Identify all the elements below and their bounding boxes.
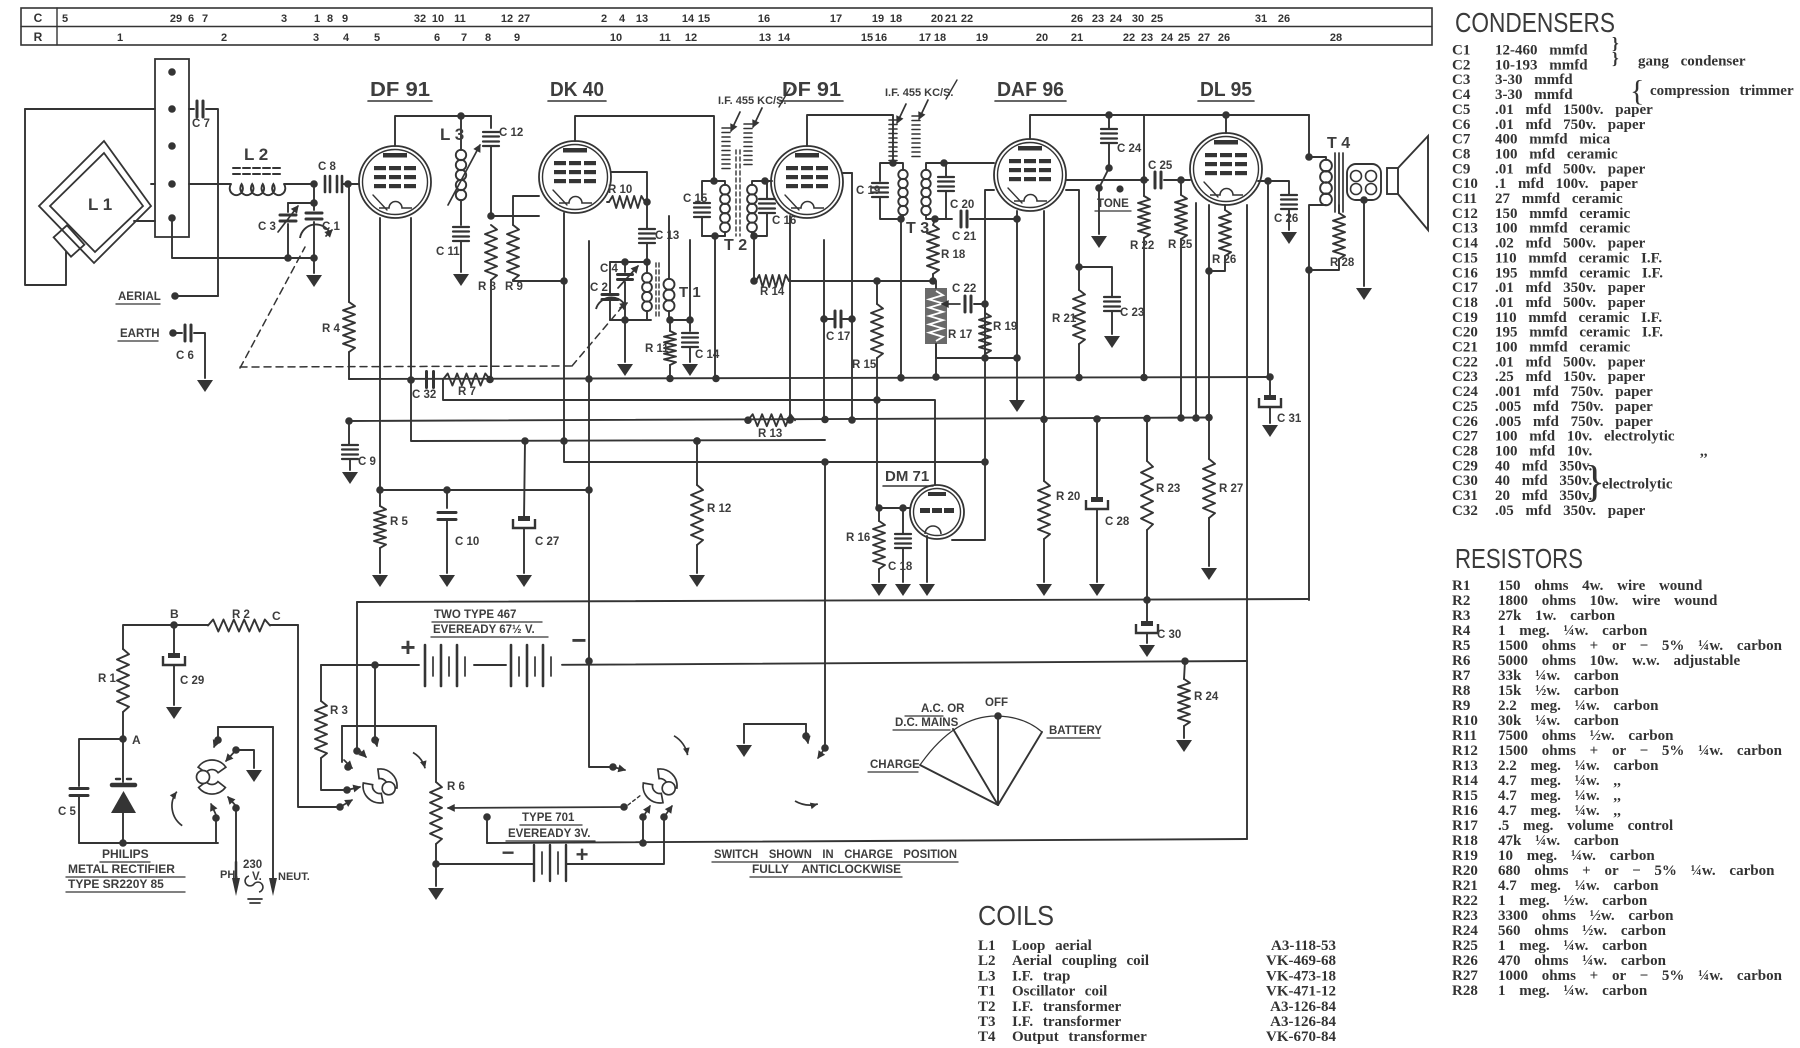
wire T2 secondary to V3 grid <box>765 180 772 182</box>
wire T2 primary bottom to HT bus <box>714 236 716 378</box>
ground at mains switch <box>246 770 262 782</box>
svg-text:150 mmfd ceramic: 150 mmfd ceramic <box>1495 206 1630 222</box>
trimmer C4 <box>624 262 626 272</box>
resistor R19 <box>984 304 986 313</box>
svg-text:DAF 96: DAF 96 <box>997 79 1064 101</box>
svg-text:C11: C11 <box>1452 191 1477 207</box>
svg-text:C 30: C 30 <box>1157 629 1181 641</box>
svg-text:470 ohms ¼w. carbon: 470 ohms ¼w. carbon <box>1498 953 1667 969</box>
svg-text:C 25: C 25 <box>1148 160 1173 172</box>
svg-text:12: 12 <box>685 32 697 44</box>
svg-text:31: 31 <box>1255 13 1267 25</box>
svg-text:4.7 meg. ¼w. carbon: 4.7 meg. ¼w. carbon <box>1498 878 1659 894</box>
svg-text:TYPE SR220Y 85: TYPE SR220Y 85 <box>68 877 164 891</box>
svg-text:10: 10 <box>610 32 622 44</box>
ground below R20 <box>1036 584 1052 596</box>
svg-text:NEUT.: NEUT. <box>278 871 310 883</box>
node B <box>170 621 178 629</box>
svg-text:R 6: R 6 <box>447 781 465 793</box>
resistor R9 <box>513 196 539 225</box>
svg-text:40 mfd 350v.: 40 mfd 350v. <box>1495 473 1593 489</box>
svg-text:−: − <box>571 625 586 655</box>
resistor R13 <box>744 416 752 424</box>
svg-text:CHARGE: CHARGE <box>870 759 920 771</box>
svg-text:METAL RECTIFIER: METAL RECTIFIER <box>68 862 175 876</box>
svg-text:C 20: C 20 <box>950 199 974 211</box>
curved arrow charge switch <box>413 753 425 769</box>
svg-text:.02 mfd 500v. paper: .02 mfd 500v. paper <box>1495 236 1646 252</box>
svg-text:R14: R14 <box>1452 773 1478 789</box>
svg-text:C 17: C 17 <box>826 331 850 343</box>
svg-text:T 4: T 4 <box>1327 135 1350 152</box>
230V neutral lead <box>272 727 274 878</box>
wire V5 anode to HT bus <box>1225 115 1227 133</box>
svg-text:R 17: R 17 <box>948 329 972 341</box>
svg-text:7: 7 <box>202 13 208 25</box>
svg-text:4.7 meg. ¼w. ,,: 4.7 meg. ¼w. ,, <box>1498 788 1621 804</box>
svg-text:C21: C21 <box>1452 340 1478 356</box>
svg-text:C: C <box>272 609 281 623</box>
resistor R6 filament rheostat <box>435 726 437 782</box>
ganging dashed line <box>240 247 305 368</box>
svg-text:I.F. transformer: I.F. transformer <box>1012 999 1122 1015</box>
svg-text:C 11: C 11 <box>436 246 460 258</box>
svg-text:100 mfd 10v.: 100 mfd 10v. <box>1495 443 1593 459</box>
svg-text:27: 27 <box>518 13 530 25</box>
svg-text:C7: C7 <box>1452 132 1471 148</box>
svg-text:18: 18 <box>890 13 902 25</box>
wire L1 inner to strip row5 <box>134 220 155 222</box>
wire L2 to C8 <box>284 183 314 185</box>
svg-text:+: + <box>400 632 415 662</box>
svg-text:{: { <box>1630 75 1644 108</box>
svg-text:RESISTORS: RESISTORS <box>1455 543 1583 574</box>
capacitor C27 electrolytic <box>521 437 529 445</box>
svg-text:.01 mfd 500v. paper: .01 mfd 500v. paper <box>1495 161 1646 177</box>
svg-text:1800 ohms 10w. wire wound: 1800 ohms 10w. wire wound <box>1498 593 1718 609</box>
resistor R10 <box>607 201 609 203</box>
node C <box>270 624 298 626</box>
svg-text:R9: R9 <box>1452 698 1470 714</box>
svg-text:C 26: C 26 <box>1274 213 1298 225</box>
svg-text:195 mmfd ceramic I.F.: 195 mmfd ceramic I.F. <box>1495 325 1663 341</box>
svg-text:1500 ohms + or − 5% ¼w. carbon: 1500 ohms + or − 5% ¼w. carbon <box>1498 638 1783 654</box>
svg-text:8: 8 <box>485 32 491 44</box>
terminal strip <box>155 59 189 237</box>
svg-text:C24: C24 <box>1452 384 1478 400</box>
svg-text:16: 16 <box>758 13 770 25</box>
svg-text:R 3: R 3 <box>330 705 348 717</box>
battery switch cluster <box>566 820 664 864</box>
switch position indicator fan <box>997 716 999 805</box>
svg-text:3-30 mmfd: 3-30 mmfd <box>1495 72 1573 88</box>
svg-text:Output transformer: Output transformer <box>1012 1029 1147 1045</box>
tube V3 DF91 IF amplifier <box>771 146 843 218</box>
svg-text:R 24: R 24 <box>1194 691 1219 703</box>
svg-text:R 13: R 13 <box>758 428 782 440</box>
svg-text:4.7 meg. ¼w. ,,: 4.7 meg. ¼w. ,, <box>1498 773 1621 789</box>
svg-text:10 meg. ¼w. carbon: 10 meg. ¼w. carbon <box>1498 848 1655 864</box>
wire V4 anode to HT top bus <box>1030 115 1309 139</box>
svg-text:C10: C10 <box>1452 176 1478 192</box>
svg-text:C 29: C 29 <box>180 675 204 687</box>
ground below R12 <box>689 575 705 587</box>
svg-text:C15: C15 <box>1452 250 1478 266</box>
svg-text:CONDENSERS: CONDENSERS <box>1455 7 1615 38</box>
svg-text:100 mfd 10v. electrolytic: 100 mfd 10v. electrolytic <box>1495 429 1675 445</box>
svg-text:R 28: R 28 <box>1330 257 1355 269</box>
svg-text:C 21: C 21 <box>952 231 977 243</box>
svg-text:14: 14 <box>682 13 695 25</box>
wire V2 anode to T2 <box>575 116 714 181</box>
resistor R3 <box>315 701 327 758</box>
svg-text:C8: C8 <box>1452 146 1470 162</box>
svg-text:B: B <box>170 607 179 621</box>
svg-text:24: 24 <box>1110 13 1123 25</box>
volume control R17 <box>925 288 947 344</box>
svg-text:2.2 meg. ¼w. carbon: 2.2 meg. ¼w. carbon <box>1498 698 1659 714</box>
V1 grid leads down <box>379 218 381 490</box>
svg-text:C22: C22 <box>1452 354 1478 370</box>
wire V2 to C13 <box>611 172 647 229</box>
resistor R23 <box>1146 419 1148 461</box>
right chassis frame <box>1246 205 1248 839</box>
svg-text:R20: R20 <box>1452 863 1478 879</box>
svg-text:12-460 mmfd: 12-460 mmfd <box>1495 43 1588 59</box>
mains switch lower contacts <box>212 814 220 822</box>
svg-text:DF 91: DF 91 <box>782 79 841 101</box>
svg-text:L2: L2 <box>978 953 996 969</box>
svg-text:26: 26 <box>1071 13 1083 25</box>
svg-text:20: 20 <box>1036 32 1048 44</box>
svg-text:32: 32 <box>414 13 426 25</box>
svg-text:27 mmfd ceramic: 27 mmfd ceramic <box>1495 191 1623 207</box>
svg-text:15: 15 <box>698 13 710 25</box>
svg-text:R19: R19 <box>1452 848 1478 864</box>
svg-text:.01 mfd 750v. paper: .01 mfd 750v. paper <box>1495 117 1646 133</box>
R15/R16 junction lead <box>876 399 878 508</box>
svg-text:C32: C32 <box>1452 503 1478 519</box>
wire L1 outer to strip row2 <box>25 108 155 110</box>
ground below C23 <box>1104 336 1120 348</box>
svg-text:R26: R26 <box>1452 953 1478 969</box>
svg-text:T2: T2 <box>978 999 996 1015</box>
filament bus y=462 <box>564 441 985 462</box>
aerial coupling coil L2 <box>189 183 231 185</box>
svg-text:R 25: R 25 <box>1168 239 1193 251</box>
svg-text:C27: C27 <box>1452 429 1478 445</box>
svg-text:.5 meg. volume control: .5 meg. volume control <box>1498 818 1673 834</box>
capacitor C13 <box>639 228 655 230</box>
svg-text:PH.: PH. <box>220 869 238 881</box>
bottom left chassis bus <box>79 842 218 844</box>
resistor R27 <box>1205 414 1213 422</box>
svg-text:.1 mfd 100v. paper: .1 mfd 100v. paper <box>1495 176 1638 192</box>
svg-text:30k ¼w. carbon: 30k ¼w. carbon <box>1498 713 1620 729</box>
wire R17/R19 bottom to ground line <box>936 357 1017 359</box>
grid bias bus y=420 <box>348 418 1209 422</box>
resistor R11 <box>666 316 674 324</box>
svg-text:C: C <box>34 11 43 25</box>
svg-text:EARTH: EARTH <box>120 328 160 340</box>
curved arrows battery switch <box>674 736 688 755</box>
capacitor C12 <box>490 116 492 128</box>
svg-text:R28: R28 <box>1452 983 1478 999</box>
svg-text:R8: R8 <box>1452 683 1470 699</box>
ground below C10 <box>439 575 455 587</box>
bottom chassis bus <box>487 839 1247 843</box>
resistor R28 <box>1338 205 1340 213</box>
svg-text:1000 ohms + or − 5% ¼w. carbon: 1000 ohms + or − 5% ¼w. carbon <box>1498 968 1783 984</box>
svg-text:L1: L1 <box>978 938 996 954</box>
svg-text:A3-126-84: A3-126-84 <box>1270 1014 1336 1030</box>
230V phase lead <box>235 808 237 878</box>
ground below C9 <box>342 472 358 484</box>
wire T3 secondary to V4 grid <box>944 162 994 164</box>
svg-text:T 3: T 3 <box>906 220 929 237</box>
IF transformer T3 <box>889 159 897 167</box>
svg-text:C13: C13 <box>1452 221 1478 237</box>
svg-text:C 6: C 6 <box>176 350 194 362</box>
svg-text:20: 20 <box>931 13 943 25</box>
wiper arrow into R6 <box>448 807 624 808</box>
IF alignment arrows T2 <box>722 127 730 129</box>
wire to trimmer C3 and gang C1 <box>313 184 315 203</box>
capacitor C11 <box>453 226 469 228</box>
svg-text:R 21: R 21 <box>1052 313 1077 325</box>
switch feed lead <box>356 602 358 748</box>
wire T2 secondary return <box>753 236 755 281</box>
capacitor C5 <box>79 739 123 786</box>
svg-text:EVEREADY 3V.: EVEREADY 3V. <box>508 828 590 840</box>
svg-text:12: 12 <box>501 13 513 25</box>
svg-text:21: 21 <box>945 13 957 25</box>
svg-text:R10: R10 <box>1452 713 1478 729</box>
diode load wire to R21 <box>1066 190 1079 267</box>
svg-text:C17: C17 <box>1452 280 1478 296</box>
svg-text:Aerial coupling coil: Aerial coupling coil <box>1012 953 1149 969</box>
svg-text:A3-126-84: A3-126-84 <box>1270 999 1336 1015</box>
ground below R24 <box>1176 740 1192 752</box>
wire V1 anode to C12 <box>395 116 491 146</box>
svg-text:C 32: C 32 <box>412 389 436 401</box>
svg-text:R24: R24 <box>1452 923 1478 939</box>
tube V6 DM71 tuning indicator <box>910 485 964 539</box>
svg-text:R 19: R 19 <box>993 321 1017 333</box>
svg-text:R12: R12 <box>1452 743 1478 759</box>
svg-text:560 ohms ½w. carbon: 560 ohms ½w. carbon <box>1498 923 1667 939</box>
capacitor C9 <box>345 417 353 425</box>
svg-text:C12: C12 <box>1452 206 1478 222</box>
svg-text:100 mmfd ceramic: 100 mmfd ceramic <box>1495 221 1630 237</box>
svg-text:C9: C9 <box>1452 161 1470 177</box>
svg-text:C25: C25 <box>1452 399 1478 415</box>
capacitor C23 <box>1079 267 1112 296</box>
svg-text:14: 14 <box>778 32 791 44</box>
component location ruler <box>21 8 1432 45</box>
charge switch contacts <box>374 665 376 737</box>
svg-text:OFF: OFF <box>985 697 1008 709</box>
svg-text:Loop aerial: Loop aerial <box>1012 938 1092 954</box>
charge switch bracket <box>342 725 436 727</box>
svg-text:26: 26 <box>1278 13 1290 25</box>
wire C12 to V2 grid <box>487 212 495 220</box>
svg-text:C 15: C 15 <box>683 193 708 205</box>
svg-text:C 22: C 22 <box>952 283 976 295</box>
svg-text:27: 27 <box>1198 32 1210 44</box>
svg-text:19: 19 <box>976 32 988 44</box>
ground below R6 <box>435 864 437 886</box>
svg-text:.005 mfd 750v. paper: .005 mfd 750v. paper <box>1495 414 1653 430</box>
ground below C2/C4 <box>624 320 626 362</box>
svg-text:.01 mfd 350v. paper: .01 mfd 350v. paper <box>1495 280 1646 296</box>
svg-text:R1: R1 <box>1452 578 1470 594</box>
svg-text:4: 4 <box>343 32 350 44</box>
svg-text:17: 17 <box>919 32 931 44</box>
resistor R20 <box>1040 416 1048 424</box>
resistor R25 <box>1177 176 1185 184</box>
svg-text:I.F. trap: I.F. trap <box>1012 968 1070 984</box>
ground below R5 <box>372 575 388 587</box>
svg-text:5: 5 <box>374 32 380 44</box>
resistor R8 <box>485 225 497 280</box>
svg-text:A.C. OR: A.C. OR <box>921 703 965 715</box>
svg-text:L3: L3 <box>978 968 996 984</box>
svg-text:22: 22 <box>1123 32 1135 44</box>
voice coil return to ground <box>1360 196 1368 204</box>
svg-text:13: 13 <box>759 32 771 44</box>
svg-text:C4: C4 <box>1452 87 1471 103</box>
svg-text:1500 ohms + or − 5% ¼w. carbon: 1500 ohms + or − 5% ¼w. carbon <box>1498 743 1783 759</box>
svg-text:2.2 meg. ¼w. carbon: 2.2 meg. ¼w. carbon <box>1498 758 1659 774</box>
svg-text:.05 mfd 350v. paper: .05 mfd 350v. paper <box>1495 503 1646 519</box>
svg-text:R 15: R 15 <box>852 359 877 371</box>
wire C down to charge switch <box>298 625 340 807</box>
svg-text:.01 mfd 500v. paper: .01 mfd 500v. paper <box>1495 295 1646 311</box>
svg-text:R17: R17 <box>1452 818 1478 834</box>
svg-text:C20: C20 <box>1452 325 1478 341</box>
svg-text:DL 95: DL 95 <box>1200 79 1252 101</box>
svg-text:R15: R15 <box>1452 788 1478 804</box>
rotor of battery switch <box>643 783 663 803</box>
capacitor C30 electrolytic <box>1143 596 1151 604</box>
svg-text:C 9: C 9 <box>358 456 376 468</box>
svg-text:7500 ohms ½w. carbon: 7500 ohms ½w. carbon <box>1498 728 1674 744</box>
T4 secondary / voice coil <box>1347 164 1381 200</box>
ground below C31 <box>1262 425 1278 437</box>
svg-text:5: 5 <box>62 13 68 25</box>
svg-text:R25: R25 <box>1452 938 1478 954</box>
filament bus y=441 <box>411 380 825 441</box>
svg-text:6: 6 <box>434 32 440 44</box>
node: C1/C3 junction to ground <box>284 254 292 262</box>
svg-text:C5: C5 <box>1452 102 1470 118</box>
svg-text:VK-473-18: VK-473-18 <box>1266 968 1336 984</box>
speaker <box>1387 168 1398 194</box>
IF transformer T2 <box>710 177 718 185</box>
svg-text:compression trimmer: compression trimmer <box>1650 83 1794 99</box>
svg-text:15: 15 <box>861 32 873 44</box>
svg-text:VK-471-12: VK-471-12 <box>1266 984 1336 1000</box>
resistor R22 <box>1140 176 1148 184</box>
svg-text:3: 3 <box>281 13 287 25</box>
svg-text:C 5: C 5 <box>58 806 77 818</box>
rotor of charge switch <box>363 783 383 803</box>
svg-text:T4: T4 <box>978 1029 996 1045</box>
svg-text:I.F. 455 KC/S.: I.F. 455 KC/S. <box>718 95 786 107</box>
svg-text:C29: C29 <box>1452 458 1478 474</box>
svg-text:R2: R2 <box>1452 593 1470 609</box>
ground below C28 <box>1089 584 1105 596</box>
svg-text:I.F. transformer: I.F. transformer <box>1012 1014 1122 1030</box>
capacitor C28 electrolytic <box>1096 419 1098 500</box>
tone switch <box>1105 164 1113 172</box>
capacitor C24 <box>1105 111 1113 119</box>
wire V4 grid circuit to C25 <box>1066 179 1148 181</box>
svg-text:T 2: T 2 <box>724 237 747 254</box>
svg-text:27k 1w. carbon: 27k 1w. carbon <box>1498 608 1616 624</box>
bus y=400 to DM71 <box>443 380 935 486</box>
svg-text:3-30 mmfd: 3-30 mmfd <box>1495 87 1573 103</box>
svg-text:C 12: C 12 <box>499 127 523 139</box>
svg-text:I.F. 455 KC/S.: I.F. 455 KC/S. <box>885 87 953 99</box>
svg-text:gang condenser: gang condenser <box>1638 53 1746 69</box>
svg-text:C 14: C 14 <box>695 349 720 361</box>
svg-text:24: 24 <box>1161 32 1174 44</box>
mains curved arrow <box>172 792 182 826</box>
svg-text:R16: R16 <box>1452 803 1478 819</box>
capacitor C10 <box>446 490 448 508</box>
tube V5 DL95 output <box>1190 133 1262 205</box>
mains switch contacts <box>218 726 273 728</box>
svg-text:9: 9 <box>514 32 520 44</box>
svg-text:C19: C19 <box>1452 310 1478 326</box>
svg-text:R 16: R 16 <box>846 532 870 544</box>
svg-text:4: 4 <box>619 13 626 25</box>
capacitor C17 <box>823 240 825 420</box>
resistor R18 <box>933 219 935 225</box>
svg-text:C 18: C 18 <box>888 561 913 573</box>
ground below C11 <box>453 274 469 286</box>
svg-text:26: 26 <box>1218 32 1230 44</box>
svg-text:R13: R13 <box>1452 758 1478 774</box>
resistor R7 <box>443 374 490 386</box>
svg-text:1 meg. ½w. carbon: 1 meg. ½w. carbon <box>1498 893 1648 909</box>
V3 cathode lead <box>789 216 791 420</box>
svg-text:C 31: C 31 <box>1277 413 1302 425</box>
svg-text:6: 6 <box>188 13 194 25</box>
HT bus (B+) y=379 <box>349 377 1270 379</box>
tube V4 DAF96 detector/AF amp <box>994 139 1066 211</box>
svg-text:110 mmfd ceramic I.F.: 110 mmfd ceramic I.F. <box>1495 250 1662 266</box>
tube V2 DK40 frequency changer <box>539 141 611 213</box>
ground below C14 <box>682 364 698 376</box>
svg-text:R3: R3 <box>1452 608 1470 624</box>
capacitor C29 electrolytic <box>173 625 175 656</box>
svg-text:.25 mfd 150v. paper: .25 mfd 150v. paper <box>1495 369 1646 385</box>
gang condenser C2 <box>609 262 611 293</box>
svg-text:4.7 meg. ¼w. ,,: 4.7 meg. ¼w. ,, <box>1498 803 1621 819</box>
svg-text:C 10: C 10 <box>455 536 479 548</box>
wire L1 top to terminal strip <box>151 183 155 185</box>
svg-text:C2: C2 <box>1452 57 1470 73</box>
svg-text:R 5: R 5 <box>390 516 409 528</box>
capacitor C26 <box>1281 194 1297 196</box>
svg-text:15k ½w. carbon: 15k ½w. carbon <box>1498 683 1620 699</box>
svg-text:8: 8 <box>327 13 333 25</box>
svg-text:33k ¼w. carbon: 33k ¼w. carbon <box>1498 668 1620 684</box>
svg-text:C 1: C 1 <box>322 221 341 233</box>
